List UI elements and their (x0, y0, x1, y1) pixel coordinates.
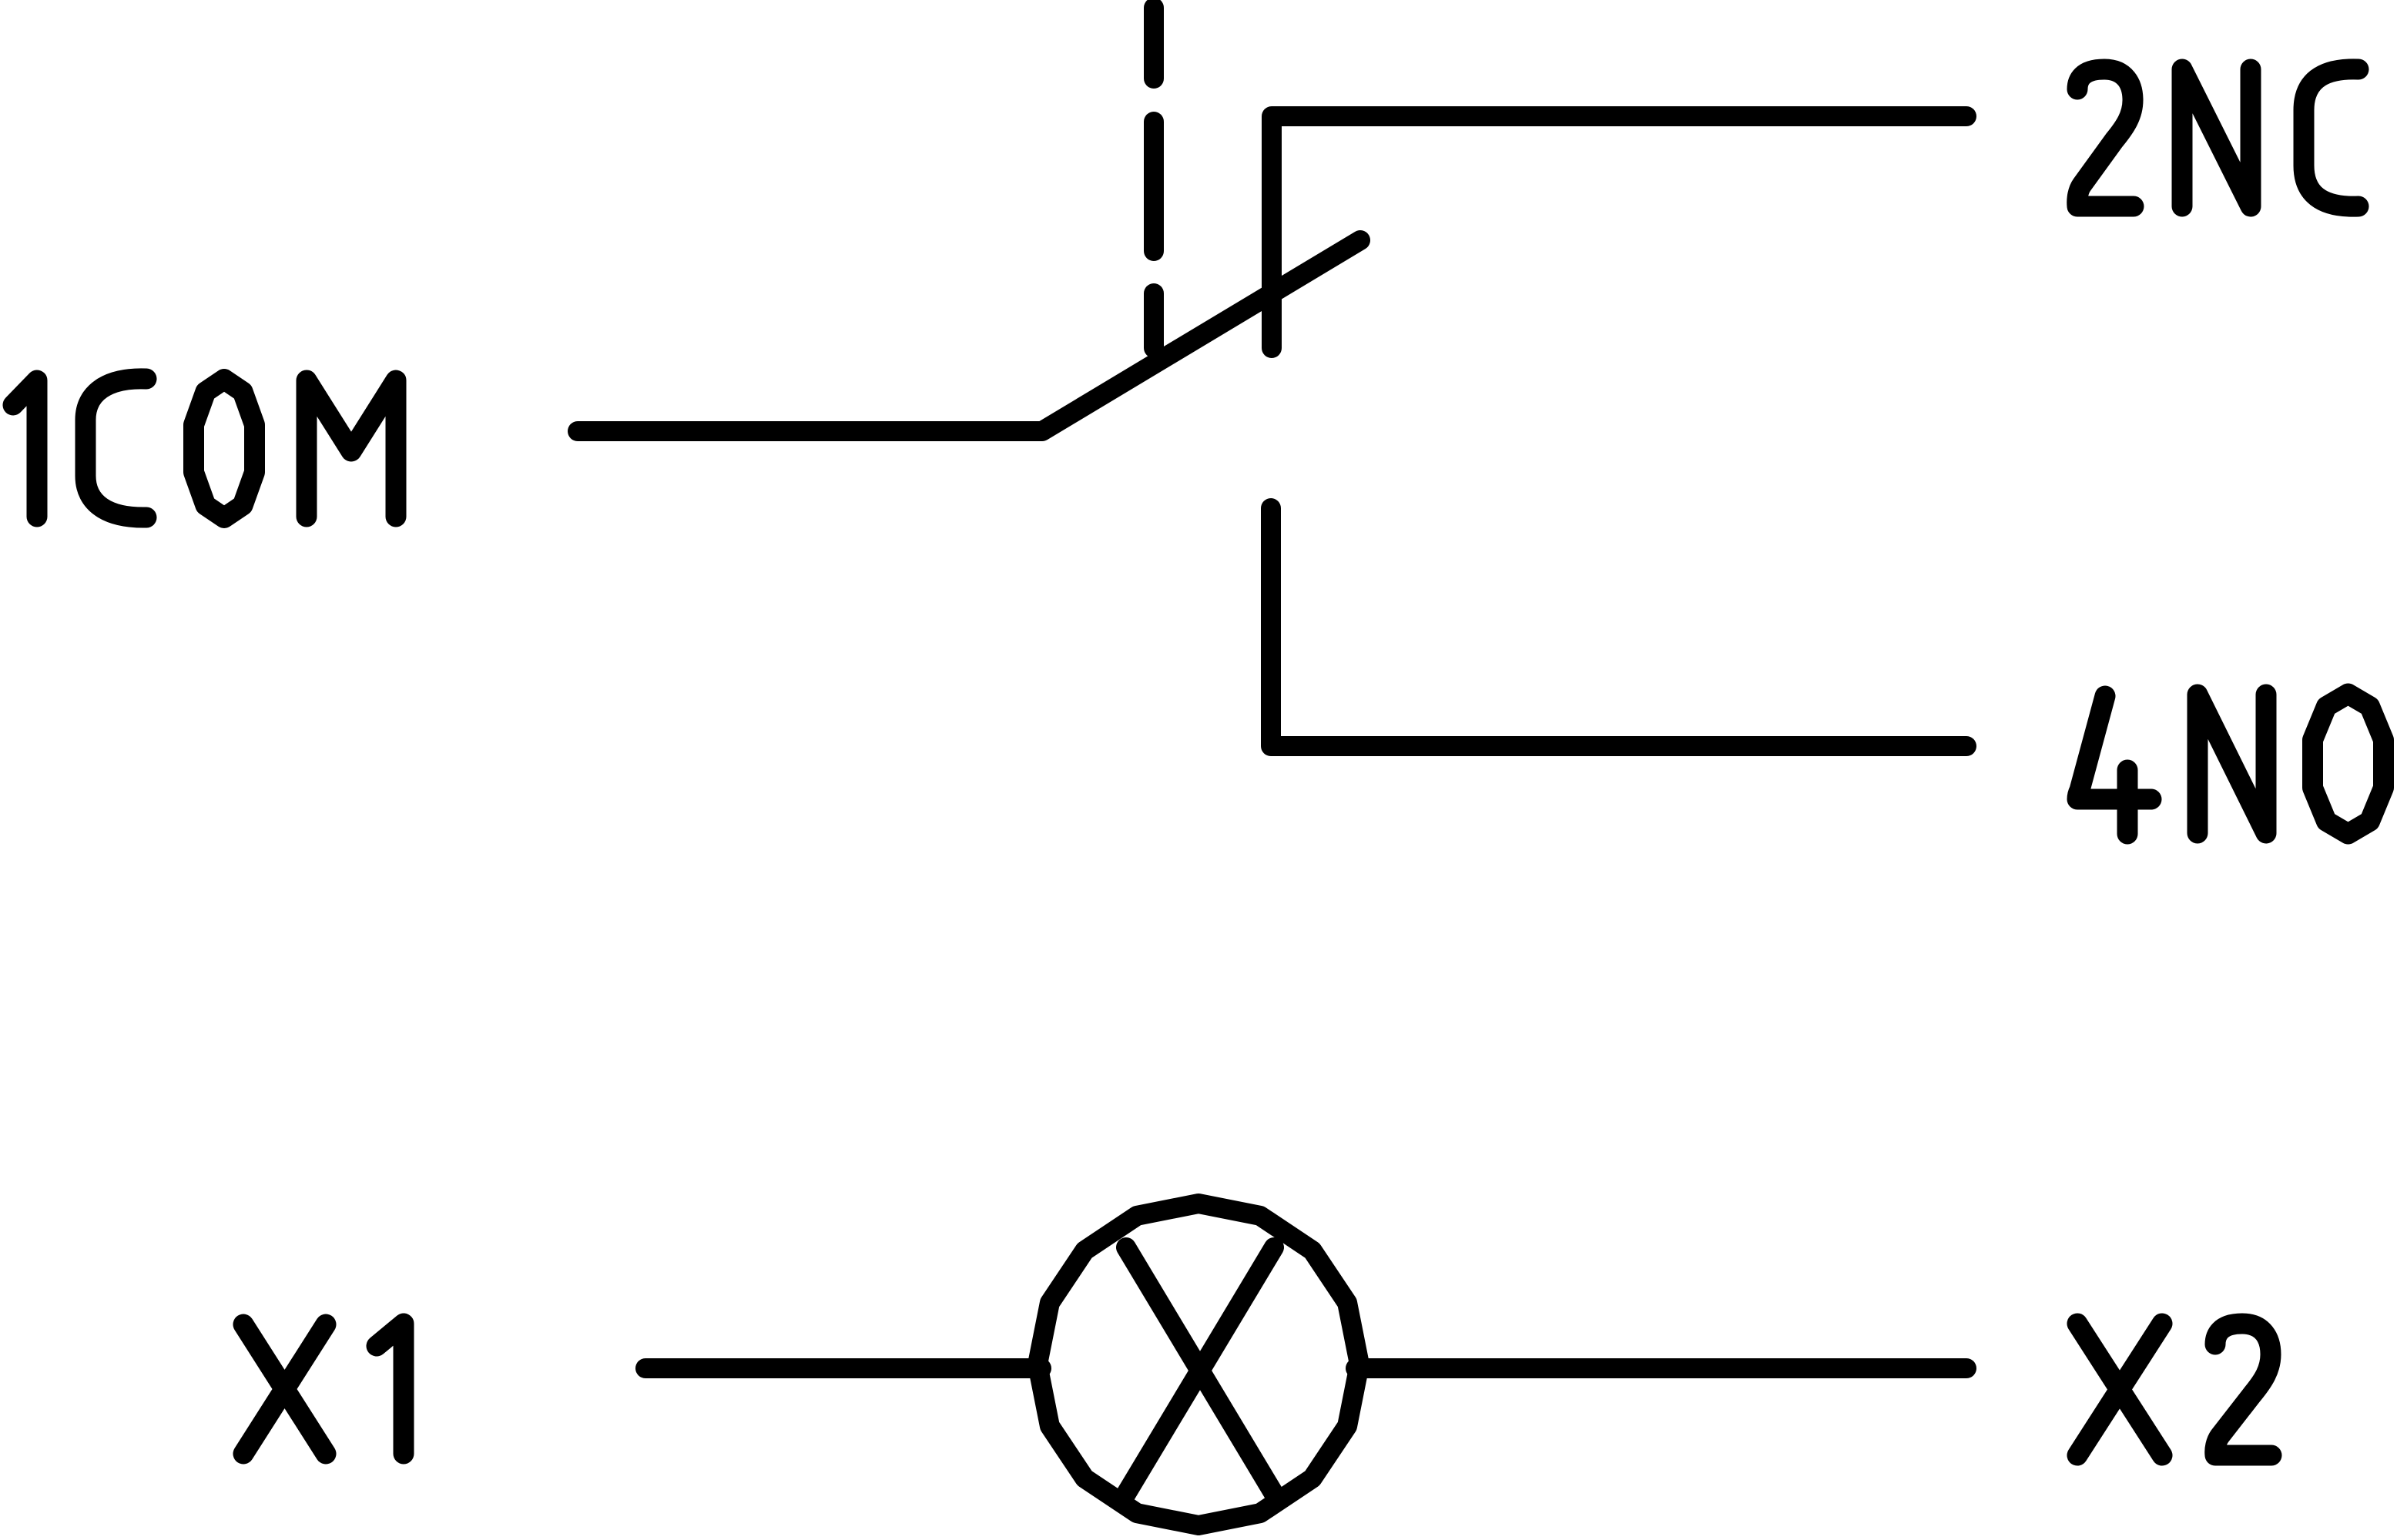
lamp cross (1126, 1247, 1274, 1494)
wire X2 lamp lead (1356, 1358, 1966, 1378)
wire 4NO contact (vertical leg and bottom horizontal) (1271, 508, 1966, 746)
label X2 (2077, 1324, 2271, 1455)
dashed actuator link (1144, 8, 1164, 348)
wire X1 lamp lead (645, 1358, 1041, 1378)
label X1 (243, 1324, 404, 1454)
lamp circle (1038, 1204, 1359, 1525)
wire 1COM lead and switch blade (578, 240, 1360, 431)
label 2NC (2077, 69, 2358, 206)
label 4NO (2077, 694, 2384, 834)
label 1COM (13, 379, 396, 518)
wire 2NC contact (top horizontal and vertical leg) (1272, 116, 1966, 348)
